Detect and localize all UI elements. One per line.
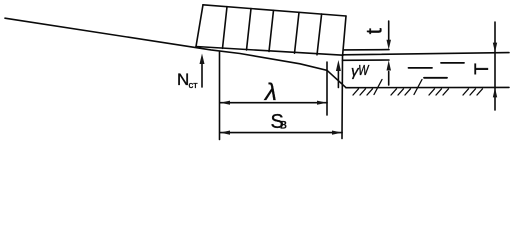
arrowhead T down xyxy=(493,43,497,53)
water dash 1 xyxy=(409,67,433,69)
extension line left (lambda / Sв) xyxy=(219,52,221,140)
water dash 3 xyxy=(424,77,447,79)
ground hatch long tick 1 xyxy=(374,80,382,95)
t dimension line upper xyxy=(388,21,390,40)
ice block top edge xyxy=(203,5,346,16)
extension line right for lambda xyxy=(326,62,328,115)
ground hatch group 1 xyxy=(353,89,373,95)
arrowhead t down xyxy=(387,40,392,50)
arrowhead lambda right xyxy=(317,101,327,105)
svg-text:t: t xyxy=(362,28,387,34)
arrowhead t up xyxy=(387,60,392,70)
arrowhead Sв right xyxy=(332,131,342,135)
ground line (channel bottom) xyxy=(346,86,509,88)
force arrow N shaft xyxy=(201,62,203,87)
t dimension line lower xyxy=(388,72,390,86)
ground hatch group 2 xyxy=(391,89,411,95)
slope line (beach profile) xyxy=(5,18,346,88)
arrowhead N (up) xyxy=(200,54,205,65)
water dash 2 xyxy=(441,62,464,64)
ground hatch group 3 xyxy=(429,89,449,95)
ice block bottom edge xyxy=(196,47,343,56)
block divider 4 xyxy=(295,12,300,53)
block divider 1 xyxy=(223,7,228,49)
ice block left edge xyxy=(196,5,203,47)
svg-text:ст: ст xyxy=(189,80,199,91)
ice sheet top line xyxy=(344,49,389,51)
arrowhead Sв left xyxy=(220,131,230,135)
arrowhead T up xyxy=(493,88,497,98)
svg-text:T: T xyxy=(472,63,493,75)
block divider 2 xyxy=(247,9,252,50)
block divider 3 xyxy=(269,10,274,51)
svg-text:N: N xyxy=(177,70,189,89)
ground hatch group 4 xyxy=(463,89,483,95)
arrowhead γW (up) xyxy=(336,60,341,71)
svg-text:W: W xyxy=(358,62,370,79)
ground hatch long tick 2 xyxy=(414,80,422,95)
T dimension line xyxy=(494,22,496,110)
svg-text:в: в xyxy=(280,117,287,132)
water surface line xyxy=(343,53,509,55)
lambda dimension line xyxy=(220,102,327,104)
buoyancy arrow γW shaft xyxy=(337,69,339,88)
ice sheet bottom line xyxy=(343,59,390,61)
arrowhead lambda left xyxy=(220,101,230,105)
ice block right edge and Sв extension line xyxy=(342,16,346,139)
svg-text:λ: λ xyxy=(263,79,277,106)
block divider 5 xyxy=(317,14,322,55)
Sв dimension line xyxy=(220,132,342,134)
